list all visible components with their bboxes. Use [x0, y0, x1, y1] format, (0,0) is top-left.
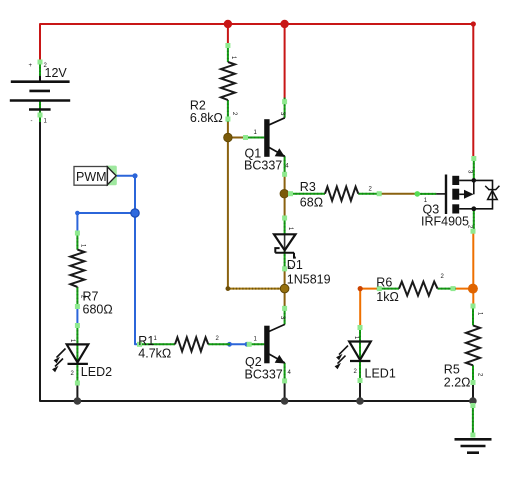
svg-text:D1: D1	[287, 258, 303, 272]
svg-text:R6: R6	[376, 276, 392, 290]
svg-text:12V: 12V	[45, 66, 68, 80]
svg-text:+: +	[29, 63, 33, 69]
svg-text:IRF4905: IRF4905	[421, 215, 469, 229]
svg-text:1kΩ: 1kΩ	[376, 290, 399, 304]
svg-text:6.8kΩ: 6.8kΩ	[190, 111, 223, 125]
svg-text:4.7kΩ: 4.7kΩ	[138, 347, 171, 361]
svg-text:-: -	[31, 119, 33, 125]
svg-text:680Ω: 680Ω	[83, 303, 113, 317]
svg-text:68Ω: 68Ω	[300, 196, 323, 210]
svg-text:BC337: BC337	[245, 368, 283, 382]
svg-text:R3: R3	[300, 180, 316, 194]
svg-text:BC337: BC337	[244, 159, 282, 173]
svg-text:PWM: PWM	[76, 170, 107, 184]
svg-text:1N5819: 1N5819	[287, 273, 331, 287]
svg-text:2.2Ω: 2.2Ω	[444, 376, 471, 390]
svg-text:R5: R5	[444, 363, 460, 377]
svg-text:LED2: LED2	[81, 365, 112, 379]
svg-text:LED1: LED1	[365, 367, 396, 381]
